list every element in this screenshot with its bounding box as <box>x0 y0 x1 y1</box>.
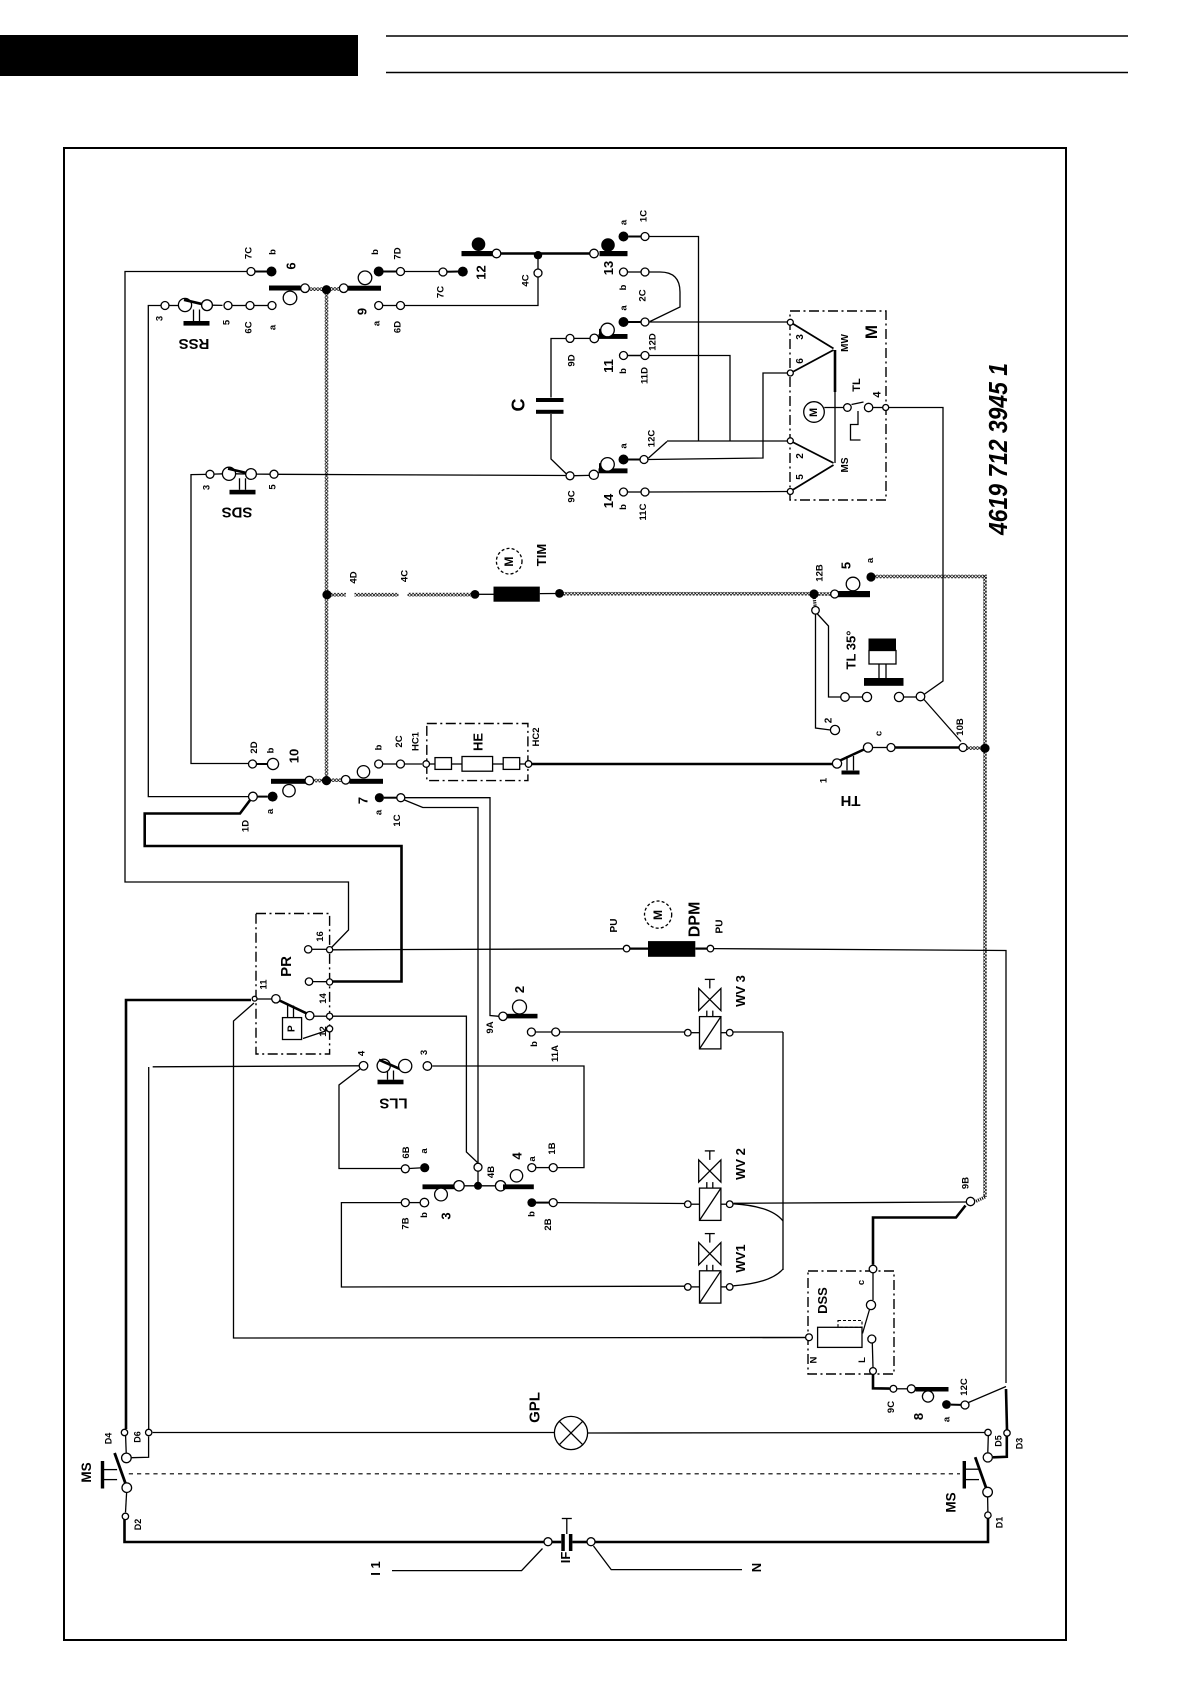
svg-text:M: M <box>651 910 665 920</box>
svg-text:2B: 2B <box>543 1218 554 1230</box>
svg-text:16: 16 <box>315 931 326 942</box>
svg-text:3: 3 <box>419 1050 430 1055</box>
svg-text:D5: D5 <box>994 1435 1004 1447</box>
svg-text:11: 11 <box>259 979 270 990</box>
svg-text:9: 9 <box>355 308 370 315</box>
svg-text:HC2: HC2 <box>531 727 542 746</box>
svg-text:TL: TL <box>851 378 863 392</box>
svg-text:b: b <box>419 1212 430 1218</box>
svg-text:I 1: I 1 <box>368 1561 383 1575</box>
svg-text:N: N <box>809 1356 820 1363</box>
svg-text:a: a <box>374 809 385 815</box>
svg-text:7B: 7B <box>401 1217 412 1229</box>
svg-text:D3: D3 <box>1015 1438 1025 1450</box>
svg-text:SDS: SDS <box>222 504 253 521</box>
svg-text:DPM: DPM <box>687 902 704 938</box>
svg-text:5: 5 <box>795 474 806 480</box>
svg-text:a: a <box>268 324 279 330</box>
svg-text:DSS: DSS <box>815 1287 830 1314</box>
svg-text:D1: D1 <box>995 1517 1005 1529</box>
svg-text:b: b <box>618 504 629 510</box>
svg-text:M: M <box>862 325 881 339</box>
svg-text:b: b <box>370 249 381 255</box>
svg-text:M: M <box>808 408 820 417</box>
svg-text:6B: 6B <box>401 1146 412 1158</box>
svg-text:D6: D6 <box>133 1431 143 1443</box>
svg-text:1C: 1C <box>392 814 403 826</box>
svg-text:12C: 12C <box>647 430 658 448</box>
svg-text:a: a <box>619 305 630 311</box>
svg-text:11A: 11A <box>550 1045 561 1062</box>
svg-text:5: 5 <box>222 319 233 325</box>
svg-text:c: c <box>856 1280 867 1285</box>
svg-text:LLS: LLS <box>379 1095 407 1112</box>
svg-text:TL 35°: TL 35° <box>844 631 859 670</box>
svg-text:13: 13 <box>601 261 616 275</box>
svg-text:2D: 2D <box>249 741 260 753</box>
svg-text:2: 2 <box>795 453 806 459</box>
svg-text:MS: MS <box>944 1492 959 1512</box>
svg-text:1D: 1D <box>241 820 252 832</box>
svg-text:L: L <box>857 1357 868 1363</box>
svg-text:7D: 7D <box>393 247 404 259</box>
svg-text:GPL: GPL <box>527 1392 544 1423</box>
svg-text:1B: 1B <box>547 1142 558 1154</box>
svg-text:b: b <box>374 744 385 750</box>
svg-text:N: N <box>749 1563 764 1572</box>
svg-text:12C: 12C <box>959 1378 970 1396</box>
svg-text:b: b <box>618 368 629 374</box>
svg-text:2C: 2C <box>394 735 405 747</box>
svg-text:2: 2 <box>512 986 527 993</box>
svg-text:4619 712 3945 1: 4619 712 3945 1 <box>985 363 1013 536</box>
svg-text:3: 3 <box>202 485 213 490</box>
svg-text:C: C <box>509 399 529 412</box>
svg-text:HE: HE <box>471 733 486 751</box>
svg-text:4C: 4C <box>521 274 532 286</box>
svg-text:WV 3: WV 3 <box>733 975 748 1007</box>
svg-text:b: b <box>266 747 277 753</box>
svg-text:12B: 12B <box>815 564 826 582</box>
svg-text:7C: 7C <box>436 286 447 298</box>
svg-text:D2: D2 <box>133 1519 143 1531</box>
svg-text:PU: PU <box>715 920 726 934</box>
svg-text:10B: 10B <box>955 718 966 736</box>
svg-text:b: b <box>529 1041 540 1047</box>
svg-text:a: a <box>527 1156 538 1162</box>
svg-text:2: 2 <box>824 717 835 723</box>
svg-text:4: 4 <box>357 1050 368 1056</box>
svg-text:11D: 11D <box>640 367 651 384</box>
svg-text:P: P <box>287 1025 298 1032</box>
svg-text:1C: 1C <box>639 210 650 222</box>
svg-text:4D: 4D <box>349 571 360 583</box>
svg-text:b: b <box>618 284 629 290</box>
svg-text:5: 5 <box>268 484 279 490</box>
svg-text:4B: 4B <box>486 1166 497 1178</box>
svg-text:9C: 9C <box>567 490 578 502</box>
svg-text:TIM: TIM <box>534 544 549 566</box>
svg-text:6: 6 <box>795 358 806 364</box>
svg-text:12: 12 <box>474 265 489 279</box>
svg-text:a: a <box>619 219 630 225</box>
svg-text:5: 5 <box>839 562 854 569</box>
svg-text:7C: 7C <box>244 247 255 259</box>
svg-text:11: 11 <box>601 359 616 373</box>
svg-text:b: b <box>527 1211 538 1217</box>
svg-text:b: b <box>268 249 279 255</box>
svg-text:14: 14 <box>601 493 616 508</box>
svg-text:4: 4 <box>510 1152 525 1160</box>
svg-text:7: 7 <box>356 797 371 804</box>
svg-text:a: a <box>865 557 876 563</box>
svg-text:MS: MS <box>840 457 851 472</box>
svg-text:4C: 4C <box>400 570 411 582</box>
svg-text:a: a <box>419 1148 430 1154</box>
svg-text:3: 3 <box>155 316 166 321</box>
svg-text:9B: 9B <box>961 1177 972 1189</box>
svg-text:9A: 9A <box>485 1021 496 1033</box>
svg-text:a: a <box>265 808 276 814</box>
svg-text:6C: 6C <box>244 321 255 333</box>
svg-text:9C: 9C <box>886 1401 897 1413</box>
svg-text:12D: 12D <box>648 333 659 351</box>
svg-text:9D: 9D <box>567 354 578 366</box>
svg-text:1: 1 <box>819 777 830 783</box>
svg-text:c: c <box>874 731 885 736</box>
svg-text:HC1: HC1 <box>411 731 422 751</box>
svg-text:8: 8 <box>911 1413 926 1420</box>
svg-text:14: 14 <box>318 993 329 1004</box>
svg-text:a: a <box>372 320 383 326</box>
svg-text:PR: PR <box>278 956 295 977</box>
svg-text:MS: MS <box>79 1462 94 1482</box>
svg-text:a: a <box>942 1416 953 1422</box>
svg-text:M: M <box>502 557 516 567</box>
svg-text:WV 2: WV 2 <box>733 1148 748 1180</box>
svg-text:TH: TH <box>841 792 861 809</box>
svg-text:RSS: RSS <box>179 335 210 352</box>
svg-text:6: 6 <box>284 262 299 269</box>
svg-text:WV1: WV1 <box>733 1244 748 1272</box>
svg-text:2C: 2C <box>638 289 649 301</box>
svg-text:3: 3 <box>439 1212 454 1219</box>
svg-text:IF: IF <box>558 1552 573 1564</box>
svg-text:3: 3 <box>795 334 806 340</box>
svg-text:a: a <box>619 443 630 449</box>
svg-text:4: 4 <box>872 391 884 398</box>
svg-text:10: 10 <box>287 749 302 763</box>
svg-text:MW: MW <box>840 334 851 352</box>
svg-text:6D: 6D <box>393 321 404 333</box>
svg-text:PU: PU <box>609 919 620 933</box>
svg-text:D4: D4 <box>104 1433 114 1445</box>
svg-text:11C: 11C <box>638 503 649 520</box>
svg-text:12: 12 <box>318 1026 329 1037</box>
